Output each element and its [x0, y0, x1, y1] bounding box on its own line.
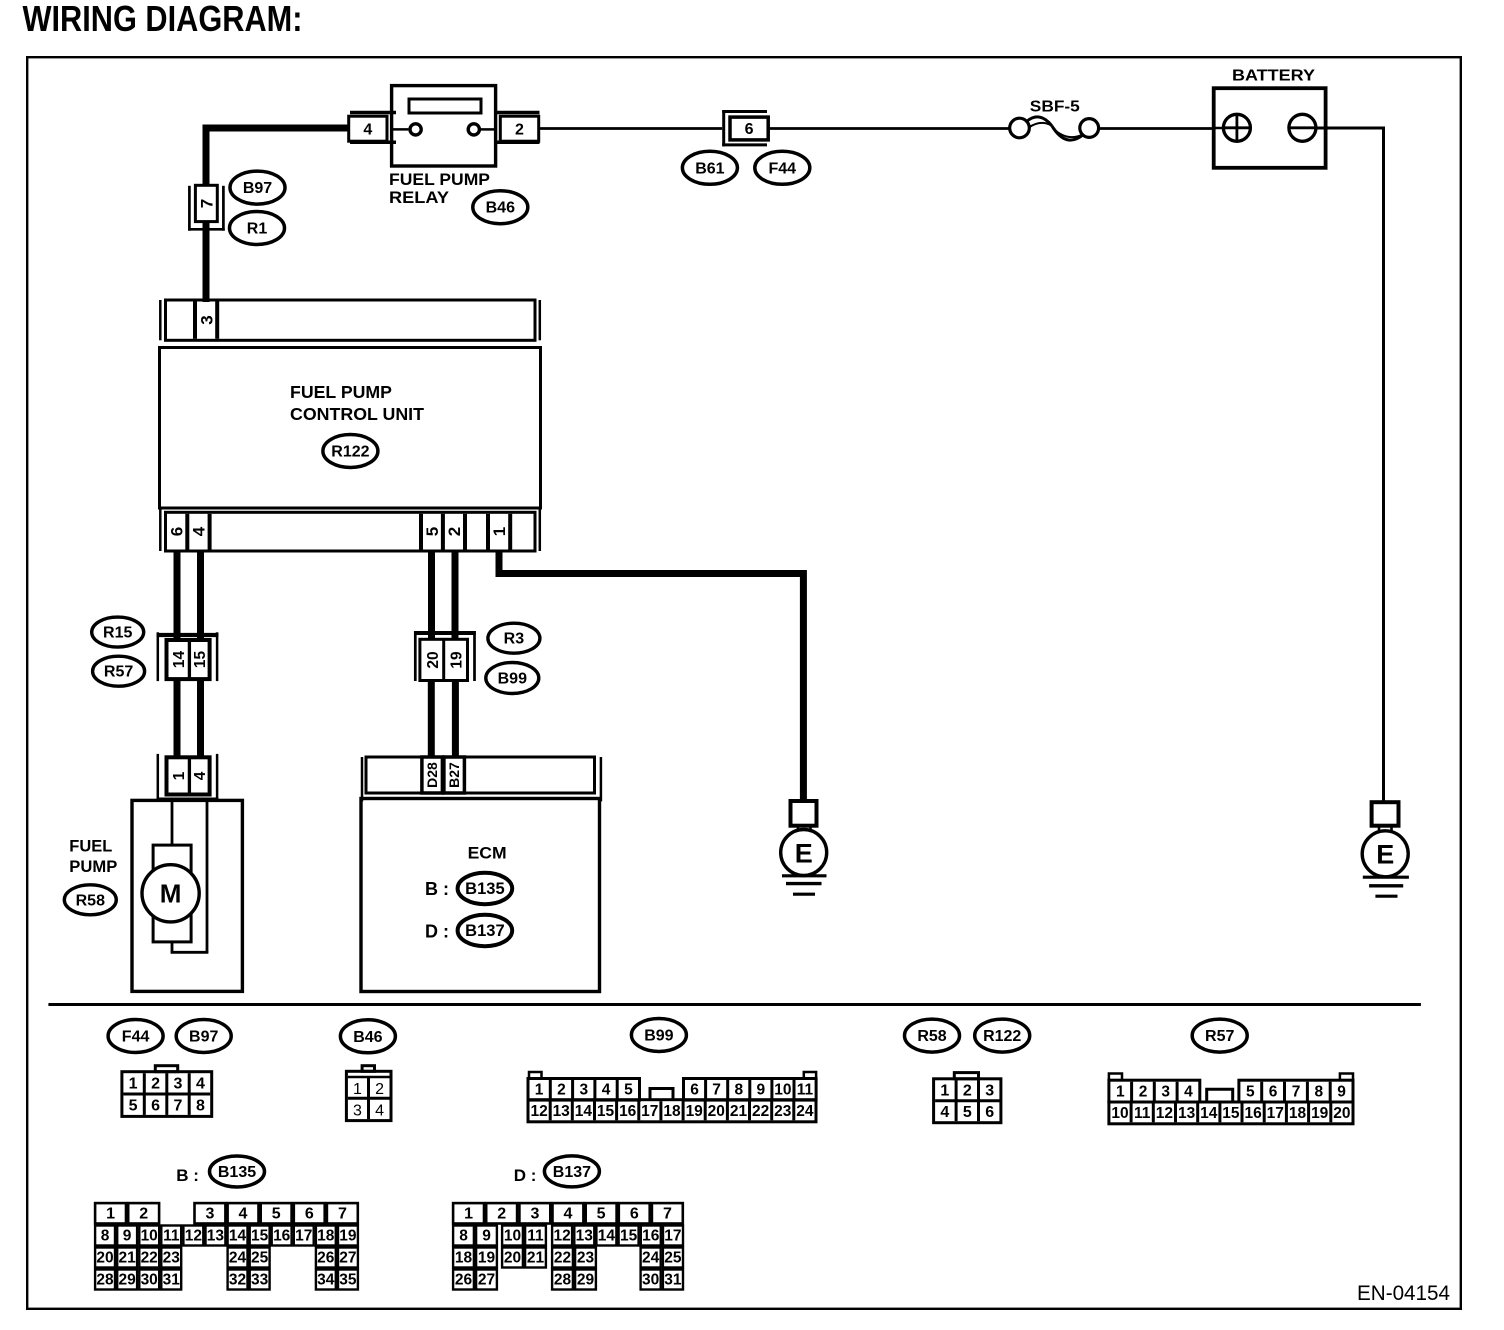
svg-text:1: 1: [171, 771, 188, 780]
svg-text:4: 4: [190, 526, 209, 536]
svg-text:2: 2: [1139, 1084, 1148, 1101]
svg-text:2: 2: [375, 1081, 384, 1098]
connector terminal 4: [349, 113, 396, 143]
svg-text:12: 12: [553, 1228, 570, 1245]
connector pinout B46 (2x2): [346, 1066, 391, 1121]
svg-text:29: 29: [118, 1272, 136, 1289]
svg-text:B135: B135: [465, 880, 504, 898]
svg-text:R122: R122: [983, 1028, 1021, 1045]
svg-text:17: 17: [664, 1228, 681, 1245]
svg-text:B27: B27: [446, 762, 462, 788]
svg-text:3: 3: [579, 1082, 588, 1099]
svg-text:3: 3: [353, 1102, 362, 1119]
oval R57 (bottom): [1192, 1019, 1247, 1052]
svg-text:28: 28: [554, 1272, 572, 1289]
svg-text:7: 7: [174, 1098, 183, 1115]
svg-text:1: 1: [535, 1082, 544, 1099]
oval R57 (mid): [93, 656, 145, 686]
battery negative terminal: [1289, 114, 1316, 141]
label B:: [425, 879, 449, 899]
wire battery to right ground: [1316, 128, 1384, 802]
wire pin5 to connector 20 (thick): [428, 551, 435, 639]
svg-text:R57: R57: [104, 664, 133, 681]
connector pinout B99 (2x13): [528, 1072, 816, 1122]
wire relay pin4 to connector 7 (thick): [206, 128, 348, 186]
svg-text:B46: B46: [353, 1029, 382, 1046]
svg-text:13: 13: [553, 1103, 571, 1120]
svg-text:30: 30: [141, 1272, 158, 1289]
svg-text:R58: R58: [917, 1028, 946, 1045]
svg-text:21: 21: [118, 1250, 136, 1267]
svg-text:4: 4: [1184, 1084, 1193, 1101]
svg-text:14: 14: [171, 651, 188, 669]
svg-text:6: 6: [630, 1206, 639, 1223]
ECM connector strip: [362, 757, 601, 801]
svg-text:M: M: [160, 879, 182, 909]
svg-text:8: 8: [734, 1082, 743, 1099]
svg-text:1: 1: [490, 527, 509, 536]
svg-text:B97: B97: [243, 180, 272, 197]
svg-text:20: 20: [96, 1250, 113, 1267]
svg-text:8: 8: [101, 1228, 110, 1245]
svg-text:17: 17: [295, 1228, 312, 1245]
connector pinout R58 (2x3): [934, 1073, 1001, 1123]
svg-text:15: 15: [597, 1103, 615, 1120]
svg-text:17: 17: [641, 1103, 658, 1120]
svg-text:3: 3: [174, 1075, 183, 1092]
oval B99 (bottom): [631, 1019, 686, 1052]
oval F44 (top): [755, 151, 810, 184]
svg-text:9: 9: [1337, 1084, 1346, 1101]
svg-text:1: 1: [1116, 1084, 1125, 1101]
fuel pump motor M: [142, 845, 199, 942]
fuel pump internal wires: [171, 802, 209, 952]
svg-text:B46: B46: [486, 200, 515, 217]
svg-text:8: 8: [196, 1098, 205, 1115]
battery box: [1214, 88, 1326, 168]
svg-text:12: 12: [1156, 1105, 1173, 1122]
wire connector 15 to pump connector 4 (thick): [197, 680, 204, 758]
middle ground symbol: [782, 876, 827, 894]
svg-text:20: 20: [425, 651, 442, 668]
svg-text:B99: B99: [498, 671, 527, 688]
svg-text:B137: B137: [553, 1164, 591, 1181]
oval R122 (bottom): [975, 1019, 1030, 1052]
oval R122 (in control unit): [323, 435, 378, 468]
oval B135 (in ECM): [458, 873, 513, 904]
svg-text:23: 23: [577, 1250, 595, 1267]
connector 20/19: [414, 631, 476, 681]
svg-text:10: 10: [504, 1228, 521, 1245]
title: [23, 0, 303, 39]
oval B46 (bottom): [340, 1020, 395, 1053]
svg-text:1: 1: [129, 1075, 138, 1092]
fuse SBF-5: [1010, 99, 1099, 141]
svg-text:11: 11: [527, 1228, 544, 1245]
svg-text:23: 23: [163, 1250, 181, 1267]
svg-text:31: 31: [163, 1272, 181, 1289]
svg-text:3: 3: [205, 1206, 214, 1223]
svg-text:6: 6: [151, 1098, 160, 1115]
svg-text:4: 4: [363, 121, 372, 138]
label ECM: [468, 844, 507, 863]
svg-text:2: 2: [557, 1082, 566, 1099]
right ground terminal E: [1362, 802, 1408, 877]
svg-text:14: 14: [598, 1228, 616, 1245]
svg-text:6: 6: [1269, 1084, 1278, 1101]
control unit top connector strip: [160, 300, 540, 340]
svg-text:F44: F44: [122, 1029, 150, 1046]
svg-text:19: 19: [1311, 1105, 1329, 1122]
svg-text:20: 20: [1333, 1105, 1350, 1122]
svg-text:4: 4: [192, 771, 209, 780]
fuel pump box: [132, 800, 242, 991]
label D: (bottom): [514, 1166, 537, 1185]
fuel pump relay B46 box: [392, 86, 496, 166]
svg-text:17: 17: [1267, 1105, 1284, 1122]
svg-text:5: 5: [423, 527, 442, 536]
svg-text:4: 4: [602, 1082, 611, 1099]
wire connector 19 to ECM B27 (thick): [452, 681, 459, 758]
svg-text:PUMP: PUMP: [69, 857, 117, 876]
svg-text:B99: B99: [644, 1028, 673, 1045]
svg-text:4: 4: [564, 1206, 573, 1223]
control unit body R122 box: [160, 348, 541, 509]
svg-text:E: E: [795, 838, 813, 868]
label FUEL PUMP (left): [69, 837, 117, 877]
svg-text:6: 6: [985, 1104, 994, 1121]
wire connector 7 to control unit pin3 (thick): [203, 222, 210, 302]
svg-text:7: 7: [338, 1206, 347, 1223]
svg-text:8: 8: [459, 1228, 468, 1245]
svg-text:EN-04154: EN-04154: [1357, 1282, 1450, 1305]
svg-text:10: 10: [774, 1082, 791, 1099]
oval B46 (relay): [473, 191, 528, 224]
svg-text:16: 16: [273, 1228, 291, 1245]
relay coil: [409, 99, 481, 113]
connector terminal 6: [722, 110, 768, 146]
svg-text:2: 2: [515, 121, 524, 138]
oval R15: [92, 617, 144, 647]
oval B97 (bottom): [176, 1020, 231, 1053]
svg-text:SBF-5: SBF-5: [1030, 99, 1080, 116]
svg-text:R57: R57: [1205, 1028, 1234, 1045]
svg-text:7: 7: [712, 1082, 721, 1099]
oval B99 (mid): [486, 663, 539, 694]
svg-text:2: 2: [445, 527, 464, 536]
svg-text:2: 2: [963, 1082, 972, 1099]
svg-text:16: 16: [1244, 1105, 1262, 1122]
wire connector 20 to ECM D28 (thick): [428, 681, 435, 758]
separator line: [48, 1003, 1421, 1006]
svg-text:22: 22: [554, 1250, 571, 1267]
svg-text:32: 32: [229, 1272, 246, 1289]
label B: (bottom): [176, 1166, 199, 1185]
svg-text:14: 14: [229, 1228, 247, 1245]
svg-text:9: 9: [756, 1082, 765, 1099]
wire pin4 to connector 15 (thick): [197, 551, 204, 640]
oval B137 (in ECM): [458, 915, 513, 946]
svg-text:R1: R1: [247, 221, 268, 238]
svg-text:B137: B137: [465, 922, 504, 940]
svg-text:14: 14: [575, 1103, 593, 1120]
svg-text:25: 25: [251, 1250, 269, 1267]
svg-text:2: 2: [139, 1206, 148, 1223]
svg-text:FUEL PUMP: FUEL PUMP: [389, 170, 490, 189]
oval B97 (top): [230, 171, 285, 204]
right ground symbol: [1363, 877, 1409, 896]
svg-text:7: 7: [663, 1206, 672, 1223]
svg-text:R122: R122: [331, 444, 369, 461]
svg-text:3: 3: [1161, 1084, 1170, 1101]
svg-text:14: 14: [1200, 1105, 1218, 1122]
svg-text:21: 21: [730, 1103, 748, 1120]
connector 7: [188, 185, 225, 230]
svg-text:18: 18: [663, 1103, 681, 1120]
svg-text:5: 5: [129, 1098, 138, 1115]
svg-text:27: 27: [478, 1272, 495, 1289]
wire connector 6 to fuse SBF-5: [768, 127, 1010, 130]
svg-text:24: 24: [796, 1103, 814, 1120]
wire pin1 to middle ground (thick): [499, 551, 803, 801]
connector pinout F44/B97 (2x4): [122, 1066, 212, 1117]
svg-text:19: 19: [339, 1228, 357, 1245]
wire pin2 to connector 19 (thick): [452, 551, 459, 639]
svg-text:8: 8: [1314, 1084, 1323, 1101]
svg-text:10: 10: [141, 1228, 158, 1245]
svg-text:15: 15: [620, 1228, 638, 1245]
svg-text:10: 10: [1111, 1105, 1128, 1122]
oval B135 (bottom): [210, 1156, 265, 1187]
relay contact right: [468, 124, 495, 135]
svg-text:18: 18: [1289, 1105, 1307, 1122]
middle ground terminal E: [781, 801, 827, 876]
svg-text:FUEL: FUEL: [69, 837, 112, 856]
svg-text:4: 4: [375, 1102, 384, 1119]
svg-text:20: 20: [708, 1103, 725, 1120]
svg-text:3: 3: [985, 1082, 994, 1099]
svg-text:12: 12: [185, 1228, 202, 1245]
oval B137 (bottom): [544, 1156, 599, 1187]
svg-text:RELAY: RELAY: [389, 188, 450, 207]
svg-text:26: 26: [317, 1250, 335, 1267]
svg-text:FUEL PUMP: FUEL PUMP: [290, 382, 392, 402]
svg-text:34: 34: [317, 1272, 335, 1289]
svg-text:16: 16: [619, 1103, 637, 1120]
svg-text:BATTERY: BATTERY: [1232, 68, 1315, 85]
svg-text:4: 4: [940, 1104, 949, 1121]
svg-text:26: 26: [455, 1272, 473, 1289]
svg-text:7: 7: [1292, 1084, 1301, 1101]
svg-text:R15: R15: [103, 625, 132, 642]
svg-text:2: 2: [151, 1075, 160, 1092]
wire relay pin2 to connector 6: [540, 127, 723, 130]
svg-text:13: 13: [1178, 1105, 1196, 1122]
svg-text:E: E: [1376, 840, 1394, 870]
svg-text:22: 22: [141, 1250, 158, 1267]
svg-text:21: 21: [527, 1250, 545, 1267]
svg-text:24: 24: [642, 1250, 660, 1267]
svg-text:1: 1: [464, 1206, 473, 1223]
oval R58 (bottom): [905, 1019, 960, 1052]
svg-text:6: 6: [745, 121, 754, 138]
wire pin6 to connector 14 (thick): [174, 551, 181, 640]
svg-text:24: 24: [229, 1250, 247, 1267]
svg-text:6: 6: [305, 1206, 314, 1223]
svg-text:B :: B :: [176, 1166, 199, 1185]
svg-text:16: 16: [642, 1228, 660, 1245]
svg-text:6: 6: [168, 527, 187, 536]
svg-text:WIRING DIAGRAM:: WIRING DIAGRAM:: [23, 0, 303, 39]
svg-text:ECM: ECM: [468, 844, 507, 863]
svg-text:25: 25: [664, 1250, 682, 1267]
svg-text:15: 15: [251, 1228, 269, 1245]
ECM pin D28: [422, 757, 443, 793]
svg-text:19: 19: [448, 651, 465, 669]
svg-text:7: 7: [198, 199, 217, 208]
svg-text:35: 35: [339, 1272, 357, 1289]
svg-text:11: 11: [797, 1082, 814, 1099]
connector 14/15: [157, 632, 219, 681]
svg-text:D28: D28: [424, 762, 440, 788]
label EN-04154: [1357, 1282, 1450, 1305]
svg-text:B135: B135: [218, 1164, 256, 1181]
svg-text:11: 11: [163, 1228, 180, 1245]
connector pinout B135: [95, 1203, 358, 1289]
svg-text:30: 30: [642, 1272, 659, 1289]
label FUEL PUMP CONTROL UNIT: [290, 382, 424, 424]
svg-text:18: 18: [455, 1250, 473, 1267]
svg-text:19: 19: [478, 1250, 496, 1267]
svg-text:13: 13: [576, 1228, 594, 1245]
battery positive terminal: [1214, 114, 1251, 141]
svg-text:2: 2: [497, 1206, 506, 1223]
svg-text:15: 15: [192, 651, 209, 669]
svg-text:9: 9: [123, 1228, 132, 1245]
svg-text:9: 9: [482, 1228, 491, 1245]
svg-text:B97: B97: [189, 1029, 218, 1046]
svg-text:5: 5: [1246, 1084, 1255, 1101]
connector pinout B137: [453, 1203, 683, 1289]
svg-text:CONTROL UNIT: CONTROL UNIT: [290, 404, 424, 424]
connector terminal 2: [496, 113, 540, 143]
svg-text:B61: B61: [695, 160, 724, 177]
svg-text:5: 5: [624, 1082, 633, 1099]
svg-text:1: 1: [940, 1082, 949, 1099]
relay contact left: [392, 124, 422, 135]
label FUEL PUMP RELAY: [389, 170, 490, 207]
svg-text:12: 12: [530, 1103, 547, 1120]
oval R1: [230, 212, 285, 245]
oval F44 (bottom): [108, 1020, 163, 1053]
connector pinout R57 (2x11): [1109, 1074, 1353, 1124]
svg-text:3: 3: [197, 315, 216, 324]
svg-text:31: 31: [664, 1272, 682, 1289]
svg-text:4: 4: [196, 1075, 205, 1092]
label D:: [425, 922, 449, 942]
svg-text:B :: B :: [425, 879, 449, 899]
svg-text:F44: F44: [769, 160, 797, 177]
svg-text:29: 29: [577, 1272, 595, 1289]
svg-text:22: 22: [752, 1103, 769, 1120]
svg-text:18: 18: [317, 1228, 335, 1245]
svg-text:D :: D :: [425, 922, 449, 942]
svg-text:33: 33: [251, 1272, 269, 1289]
svg-text:4: 4: [239, 1206, 248, 1223]
svg-text:19: 19: [686, 1103, 704, 1120]
svg-text:11: 11: [1134, 1105, 1151, 1122]
oval R3: [488, 623, 540, 653]
svg-text:3: 3: [530, 1206, 539, 1223]
connector 1/4 (fuel pump): [157, 754, 219, 801]
svg-text:13: 13: [207, 1228, 225, 1245]
svg-text:28: 28: [96, 1272, 114, 1289]
wire connector 14 to pump connector 1 (thick): [174, 680, 181, 758]
svg-text:27: 27: [339, 1250, 356, 1267]
svg-text:5: 5: [963, 1104, 972, 1121]
svg-text:1: 1: [106, 1206, 115, 1223]
oval B61: [682, 151, 737, 184]
svg-text:R3: R3: [504, 631, 525, 648]
svg-text:R58: R58: [76, 892, 105, 909]
svg-text:1: 1: [353, 1081, 362, 1098]
ECM pin B27: [444, 757, 465, 793]
svg-text:23: 23: [774, 1103, 792, 1120]
svg-text:15: 15: [1222, 1105, 1240, 1122]
ECM box: [361, 799, 600, 992]
control unit bottom connector strip: [160, 508, 540, 551]
label BATTERY: [1232, 68, 1315, 85]
svg-text:5: 5: [597, 1206, 606, 1223]
svg-text:6: 6: [690, 1082, 699, 1099]
svg-text:20: 20: [504, 1250, 521, 1267]
svg-text:D :: D :: [514, 1166, 537, 1185]
svg-text:5: 5: [272, 1206, 281, 1223]
oval R58 (mid): [64, 885, 116, 915]
wire fuse to battery: [1099, 127, 1214, 130]
